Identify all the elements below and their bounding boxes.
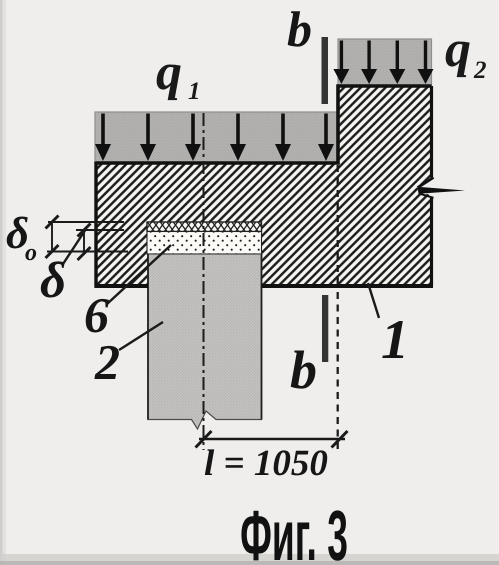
dimension delta0: [46, 216, 129, 259]
label delta: [40, 253, 66, 309]
label q1: [156, 44, 201, 105]
svg-text:2: 2: [473, 57, 487, 84]
svg-text:δ: δ: [40, 253, 66, 309]
scan edge shading left: [0, 0, 6, 565]
svg-text:q: q: [445, 21, 471, 78]
dimension line l=1050: [196, 431, 348, 448]
beam 1 hatched body: [96, 86, 432, 286]
load band q1: [95, 112, 338, 163]
svg-text:ο: ο: [25, 240, 37, 266]
leader and label 2: [94, 322, 163, 390]
svg-text:Фиг. 3: Фиг. 3: [240, 497, 348, 565]
label delta0: [6, 208, 37, 266]
section line b-b dashed trace: [337, 165, 339, 450]
load arrows q2: [333, 41, 433, 85]
svg-text:q: q: [156, 44, 182, 101]
section line b-b upper thick mark: [322, 37, 329, 104]
section line b-b lower thick mark: [322, 295, 328, 362]
centerline of column 2 (dash-dot): [203, 113, 205, 450]
svg-text:2: 2: [94, 334, 120, 390]
label q2: [445, 21, 487, 84]
svg-text:b: b: [290, 340, 317, 400]
label b lower: [290, 340, 317, 400]
break symbol on right edge of beam 1: [417, 178, 466, 198]
leader and label 1: [368, 283, 409, 371]
load band q2: [338, 39, 432, 86]
caption Fig. 3: [240, 497, 348, 565]
dimension delta: [63, 224, 124, 265]
recess dotted mortar strip: [147, 232, 262, 255]
svg-text:b: b: [287, 1, 312, 57]
recess layer 6 crosshatch strip: [147, 222, 262, 232]
leader and label 6: [84, 245, 171, 343]
label l=1050: [204, 443, 328, 484]
svg-text:l = 1050: l = 1050: [204, 443, 328, 484]
beam 1 outline: [95, 86, 434, 288]
label b upper: [287, 1, 312, 57]
load arrows q1: [95, 114, 334, 162]
column 2 gray body: [148, 254, 262, 429]
svg-text:1: 1: [381, 309, 409, 371]
svg-text:1: 1: [188, 78, 201, 105]
